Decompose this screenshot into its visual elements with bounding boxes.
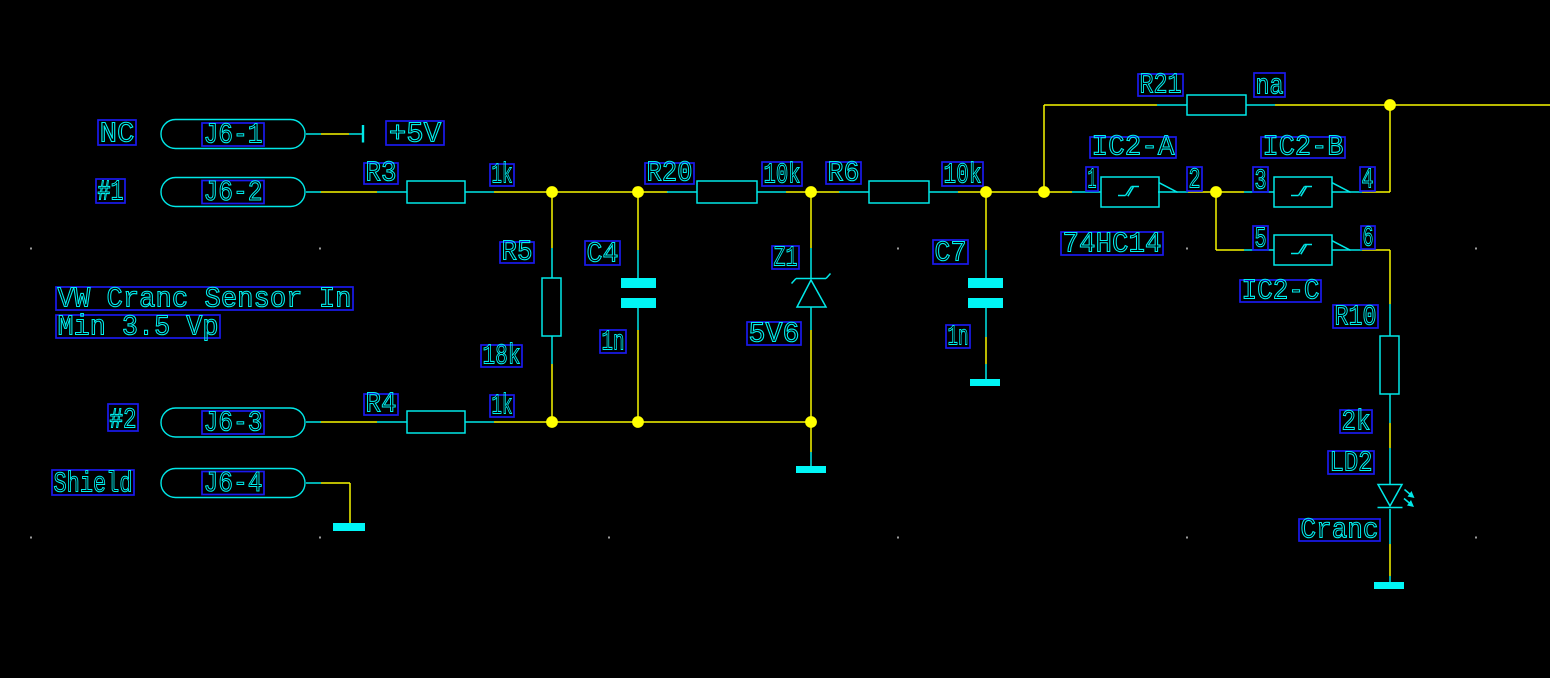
pin number 2: [1187, 164, 1202, 197]
node junction at (552,192): [546, 186, 558, 198]
svg-text:1n: 1n: [948, 321, 969, 354]
resistor R10: [1380, 304, 1399, 423]
value 5V6 (Z1): [747, 318, 801, 351]
label R4: [364, 388, 398, 421]
resistor R21: [1157, 95, 1275, 115]
wire: [637, 330, 639, 422]
wire: [551, 192, 553, 248]
svg-text:1k: 1k: [492, 159, 513, 192]
svg-text:R21: R21: [1140, 69, 1182, 102]
wire: [1188, 191, 1244, 193]
wire: [637, 192, 639, 250]
value 1n (C4): [600, 326, 626, 359]
svg-text:J6-3: J6-3: [204, 407, 263, 440]
node junction at (1390,105): [1384, 99, 1396, 111]
pin number 3: [1253, 165, 1268, 198]
pin number 6: [1361, 222, 1375, 255]
node junction at (986,192): [980, 186, 992, 198]
wire pin stub IC2-B input: [1244, 191, 1274, 193]
label Shield: [52, 468, 134, 501]
wire: [494, 191, 668, 193]
value 10k (R6): [942, 159, 983, 192]
label R6: [826, 157, 861, 190]
pin number 4: [1360, 164, 1375, 197]
node junction at (552,422): [546, 416, 558, 428]
wire: [985, 337, 987, 364]
note text: Min 3.5 Vp: [56, 311, 220, 344]
svg-text:C4: C4: [587, 238, 619, 271]
svg-text:R6: R6: [828, 157, 860, 190]
wire: [1389, 423, 1391, 448]
label LD2: [1328, 447, 1374, 480]
label IC2-A: [1090, 131, 1176, 164]
label R5: [500, 236, 534, 269]
svg-text:R20: R20: [647, 157, 693, 190]
svg-text:Z1: Z1: [774, 242, 798, 275]
value 2k (R10): [1340, 406, 1372, 439]
wire pin stub IC2-A input: [1072, 191, 1101, 193]
svg-text:C7: C7: [935, 237, 967, 270]
svg-text:#1: #1: [98, 176, 124, 209]
label Z1: [772, 242, 799, 275]
node junction at (1216,192): [1210, 186, 1222, 198]
LED LD2: [1378, 448, 1415, 544]
connector pin J6-2: [161, 176, 321, 209]
connector pin J6-1: [161, 119, 321, 152]
label R10: [1333, 301, 1378, 334]
ground (J6-4 shield): [333, 523, 365, 531]
svg-text:1k: 1k: [492, 390, 513, 423]
svg-text:+5V: +5V: [389, 118, 442, 151]
resistor R4: [377, 411, 494, 433]
svg-text:74HC14: 74HC14: [1063, 228, 1162, 261]
resistor R3: [377, 181, 494, 203]
resistor R20: [667, 181, 786, 203]
wire: [1362, 191, 1390, 193]
ground (C7): [970, 379, 1000, 386]
svg-text:Min 3.5 Vp: Min 3.5 Vp: [58, 311, 219, 344]
node junction at (811,422): [805, 416, 817, 428]
label #1: [96, 176, 125, 209]
label R21: [1138, 69, 1183, 102]
svg-text:Shield: Shield: [54, 468, 133, 501]
wire: [810, 330, 812, 422]
label #2: [108, 404, 138, 437]
wire pin stub IC2-C output: [1332, 249, 1362, 251]
wire: [810, 422, 812, 452]
svg-text:5V6: 5V6: [749, 318, 800, 351]
svg-text:1n: 1n: [602, 326, 625, 359]
svg-text:J6-4: J6-4: [204, 467, 263, 500]
wire: [810, 192, 812, 248]
wire pin stub IC2-C input: [1244, 249, 1274, 251]
diode Z1 (zener): [792, 248, 831, 330]
wire: [1216, 249, 1244, 251]
svg-text:Cranc: Cranc: [1301, 514, 1379, 547]
label NC: [98, 118, 136, 151]
svg-text:J6-2: J6-2: [204, 176, 263, 209]
svg-text:18k: 18k: [483, 340, 521, 373]
label C7: [933, 237, 968, 270]
ground (LD2 cathode): [1374, 576, 1404, 589]
wire: [349, 483, 351, 523]
wire: [321, 133, 349, 135]
svg-text:R5: R5: [502, 236, 533, 269]
label IC2-B: [1261, 131, 1345, 164]
note text: VW Cranc Sensor In: [56, 283, 353, 316]
svg-text:IC2-B: IC2-B: [1263, 131, 1344, 164]
capacitor C7: [968, 250, 1003, 379]
svg-text:10k: 10k: [764, 159, 801, 192]
svg-text:6: 6: [1363, 222, 1374, 255]
wire: [958, 191, 1072, 193]
wire: [1275, 104, 1550, 106]
wire: [1389, 105, 1391, 192]
wire: [1215, 192, 1217, 250]
pin number 1: [1086, 164, 1098, 197]
wire: [1389, 544, 1391, 576]
wire pin stub IC2-B output: [1332, 191, 1362, 193]
svg-text:3: 3: [1255, 165, 1267, 198]
wire: [1389, 250, 1391, 304]
capacitor C4: [621, 250, 656, 330]
wire: [985, 192, 987, 250]
value 1n (C7): [946, 321, 970, 354]
node junction at (1044,192): [1038, 186, 1050, 198]
wire: [321, 482, 350, 484]
value 1k (R4): [490, 390, 514, 423]
value 18k (R5): [481, 340, 522, 373]
svg-text:10k: 10k: [944, 159, 982, 192]
wire: [1044, 104, 1157, 106]
svg-text:2k: 2k: [1342, 406, 1371, 439]
label R20: [645, 157, 694, 190]
label IC2-C: [1240, 275, 1321, 308]
node junction at (638,422): [632, 416, 644, 428]
label 74HC14 (IC2 value): [1061, 228, 1163, 261]
wire pin stub IC2-A output: [1158, 191, 1188, 193]
wire: [786, 191, 840, 193]
connector pin J6-4: [161, 467, 321, 500]
svg-text:J6-1: J6-1: [204, 119, 263, 152]
label R3: [364, 157, 398, 190]
resistor R5: [542, 248, 561, 364]
svg-text:R3: R3: [366, 157, 397, 190]
svg-text:4: 4: [1362, 164, 1374, 197]
svg-text:LD2: LD2: [1330, 447, 1373, 480]
ground (Z1 anode): [796, 452, 826, 473]
svg-text:2: 2: [1189, 164, 1201, 197]
svg-text:R10: R10: [1335, 301, 1377, 334]
pin number 5: [1253, 223, 1268, 256]
op-amp IC2-A (74HC14 schmitt inverter gate): [1101, 177, 1178, 207]
wire: [494, 421, 811, 423]
op-amp IC2-B (74HC14 schmitt inverter gate): [1274, 177, 1351, 207]
svg-text:NC: NC: [100, 118, 135, 151]
svg-text:IC2-C: IC2-C: [1242, 275, 1320, 308]
wire: [1043, 105, 1045, 192]
wire: [320, 421, 377, 423]
net label Cranc: [1299, 514, 1380, 547]
connector pin J6-3: [161, 407, 321, 440]
node junction at (638,192): [632, 186, 644, 198]
value 1k (R3): [490, 159, 514, 192]
wire: [551, 364, 553, 422]
label +5V: [386, 118, 444, 151]
svg-text:na: na: [1256, 70, 1284, 103]
svg-text:IC2-A: IC2-A: [1092, 131, 1176, 164]
value na (R21): [1254, 70, 1285, 103]
svg-text:5: 5: [1255, 223, 1267, 256]
label C4: [585, 238, 620, 271]
resistor R6: [839, 181, 958, 203]
wire: [320, 191, 377, 193]
value 10k (R20): [762, 159, 802, 192]
svg-text:#2: #2: [110, 404, 137, 437]
power +5V symbol: [349, 125, 363, 143]
op-amp IC2-C (74HC14 schmitt inverter gate): [1274, 235, 1351, 265]
node junction at (811,192): [805, 186, 817, 198]
wire: [1362, 249, 1390, 251]
svg-text:1: 1: [1088, 164, 1097, 197]
svg-text:R4: R4: [366, 388, 397, 421]
